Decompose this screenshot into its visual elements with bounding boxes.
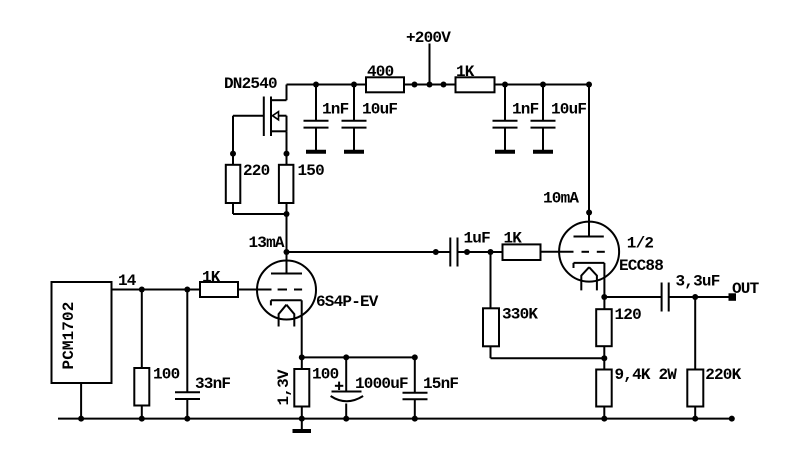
svg-text:1000uF: 1000uF bbox=[355, 375, 408, 393]
svg-text:3,3uF: 3,3uF bbox=[676, 273, 720, 291]
svg-text:33nF: 33nF bbox=[195, 375, 230, 393]
svg-text:9,4K 2W: 9,4K 2W bbox=[615, 366, 678, 384]
svg-text:150: 150 bbox=[298, 162, 325, 180]
svg-text:13mA: 13mA bbox=[249, 234, 285, 252]
svg-text:10uF: 10uF bbox=[551, 101, 586, 119]
svg-text:400: 400 bbox=[367, 63, 394, 81]
svg-text:1K: 1K bbox=[504, 230, 523, 248]
svg-text:10uF: 10uF bbox=[362, 101, 397, 119]
svg-text:1nF: 1nF bbox=[512, 101, 539, 119]
svg-text:15nF: 15nF bbox=[423, 375, 458, 393]
svg-text:1,3V: 1,3V bbox=[275, 369, 293, 405]
svg-text:14: 14 bbox=[118, 272, 137, 290]
svg-text:1nF: 1nF bbox=[322, 101, 349, 119]
svg-text:ECC88: ECC88 bbox=[619, 257, 663, 275]
svg-text:220: 220 bbox=[243, 162, 270, 180]
svg-text:100: 100 bbox=[312, 366, 339, 384]
svg-text:100: 100 bbox=[153, 365, 180, 383]
svg-text:330K: 330K bbox=[502, 306, 538, 324]
svg-text:+200V: +200V bbox=[406, 29, 451, 47]
svg-text:6S4P-EV: 6S4P-EV bbox=[316, 293, 379, 311]
svg-text:1K: 1K bbox=[456, 63, 475, 81]
svg-text:120: 120 bbox=[615, 306, 642, 324]
svg-text:10mA: 10mA bbox=[543, 190, 579, 208]
svg-text:DN2540: DN2540 bbox=[224, 75, 277, 93]
svg-text:220K: 220K bbox=[705, 366, 741, 384]
svg-text:1uF: 1uF bbox=[464, 230, 491, 248]
svg-text:OUT: OUT bbox=[732, 280, 760, 298]
svg-text:PCM1702: PCM1702 bbox=[60, 302, 78, 370]
svg-text:1K: 1K bbox=[202, 269, 221, 287]
svg-text:1/2: 1/2 bbox=[627, 235, 654, 253]
